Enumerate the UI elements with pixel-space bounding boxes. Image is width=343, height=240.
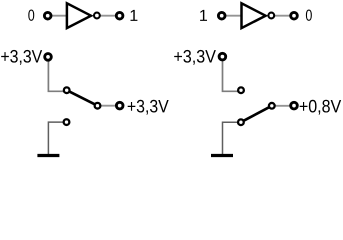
inverter U2 bubble xyxy=(268,13,274,19)
switch S2 upper contact xyxy=(238,87,244,93)
terminal input U2 xyxy=(218,12,225,19)
node IN1 label "0" xyxy=(28,10,34,21)
wire S1 pole to output terminal xyxy=(98,105,120,107)
wire input to inverter U1 xyxy=(48,15,67,17)
wire input to inverter U2 xyxy=(222,15,242,17)
wire bubble to output terminal U1 xyxy=(97,15,120,17)
node OUT2 label "0" xyxy=(306,10,312,21)
wire +3,3V to switch S1 upper contact xyxy=(48,57,66,91)
terminal output U1 xyxy=(116,12,123,19)
node output label +0,8V xyxy=(300,100,341,115)
wire S1 lower contact to ground xyxy=(48,122,66,154)
node output label +3,3V xyxy=(128,100,169,115)
terminal output S1 xyxy=(116,102,123,109)
ground left xyxy=(37,154,59,157)
switch S1 arm xyxy=(67,90,98,106)
inverter U1 bubble xyxy=(94,13,100,19)
ground right xyxy=(211,154,233,157)
wire S2 pole to output terminal xyxy=(272,105,294,107)
node IN2 label "1" xyxy=(200,10,207,21)
switch S2 arm xyxy=(241,106,272,122)
terminal +3,3V left xyxy=(45,54,52,61)
switch S1 lower contact xyxy=(64,119,70,125)
terminal output S2 xyxy=(291,102,298,109)
switch S1 upper contact xyxy=(64,87,70,93)
switch S1 pole contact xyxy=(95,103,101,109)
terminal +3,3V right xyxy=(219,53,226,60)
wire bubble to output terminal U2 xyxy=(271,15,294,17)
node OUT1 label "1" xyxy=(131,10,138,21)
inverter gate U2 triangle xyxy=(242,3,266,28)
terminal output U2 xyxy=(291,12,298,19)
terminal input U1 xyxy=(44,12,51,19)
net +3,3V supply label right xyxy=(174,50,216,65)
switch S2 lower contact xyxy=(238,119,244,125)
wire +3,3V to switch S2 upper contact xyxy=(223,57,242,92)
wire S2 lower contact to ground xyxy=(223,122,241,154)
switch S2 pole contact xyxy=(269,103,275,109)
net +3,3V supply label left xyxy=(1,50,42,65)
inverter gate U1 triangle xyxy=(67,3,91,28)
